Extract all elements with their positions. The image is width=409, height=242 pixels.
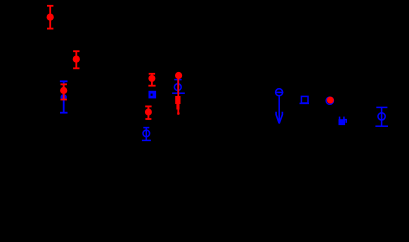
red data point R6 (filled circle with long error bar and second marker)	[175, 72, 182, 115]
blue data point B1 (filled circle with error bar, under red R3)	[60, 81, 68, 112]
red data point R1 (filled circle with error bar)	[47, 6, 54, 29]
red data point R4 (filled circle with error bar)	[148, 74, 155, 86]
red data point R2 (filled circle with error bar)	[73, 51, 80, 68]
red data point R5 (filled circle with error bar)	[145, 106, 152, 119]
blue data point B7 (open circle with error bar, phi style)	[375, 107, 388, 126]
red data point R3 (filled circle with error bar, over blue B1)	[60, 84, 67, 99]
blue data point B2 (filled square marker)	[149, 91, 157, 99]
blue data point B6 (filled square with ticks)	[339, 117, 348, 126]
blue data point B6cluster (ring + caps behind red R6)	[172, 80, 185, 94]
blue data point B4 (open circle, cap, downward arrow = upper limit)	[275, 89, 283, 125]
blue data point B3 (open circle with error bar)	[142, 127, 151, 140]
red data point R7 (filled circle)	[327, 97, 334, 104]
blue data point B5 (open square with bottom cap)	[300, 96, 310, 103]
blue ring B8 (edge behind red R7)	[326, 97, 333, 104]
